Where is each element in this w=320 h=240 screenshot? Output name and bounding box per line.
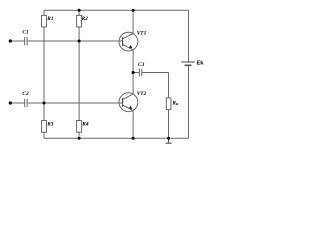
svg-text:R2: R2 [81, 16, 89, 22]
wire input 2 (C2 to base V72) [10, 102, 122, 104]
resistor R2 [77, 15, 82, 27]
node top rail / collector VT1 [132, 9, 135, 12]
wire top rail [44, 9, 189, 11]
wire mid column R2-R4 [78, 10, 80, 138]
transistor VT2 [119, 93, 138, 112]
node input terminal 1 [9, 39, 12, 42]
resistor R1 [42, 15, 47, 27]
node base wire 2 / R1 column [43, 102, 46, 105]
svg-text:C2: C2 [22, 91, 29, 97]
capacitor C2 [25, 99, 27, 107]
ground [166, 138, 172, 143]
svg-text:R3: R3 [46, 121, 54, 127]
wire emitter V72 to bottom rail [132, 111, 134, 139]
battery Ek [181, 62, 195, 65]
wire collector V71 to top rail [132, 10, 134, 33]
wire Rn column [168, 73, 170, 139]
arrow emitter VT2 [129, 106, 132, 109]
svg-text:C3: C3 [138, 62, 145, 68]
node top rail / R2 [78, 9, 81, 12]
svg-text:C1: C1 [22, 29, 29, 35]
node bottom rail / emitter VT2 [132, 137, 135, 140]
node bottom rail / R4 [78, 137, 81, 140]
wire right rail upper [188, 10, 190, 62]
wire input 1 (C1 to base V71) [10, 40, 122, 42]
wire bottom rail [44, 137, 189, 139]
node bottom rail / Rn ground [167, 137, 170, 140]
wire C3 branch [133, 72, 168, 74]
svg-text:VT1: VT1 [137, 31, 147, 37]
wire emitter V71 to collector V72 [132, 50, 134, 94]
svg-text:Ek: Ek [197, 61, 205, 67]
capacitor C1 [25, 37, 27, 45]
resistor Rn [166, 98, 171, 110]
node base wire 1 / R2 column [78, 40, 81, 43]
svg-text:R1: R1 [46, 16, 54, 22]
transistor VT1 [119, 32, 138, 51]
svg-text:Rн: Rн [171, 101, 179, 107]
svg-text:VT2: VT2 [137, 91, 147, 97]
wire right rail lower [188, 65, 190, 138]
capacitor C3 [139, 69, 141, 76]
resistor R4 [77, 121, 82, 133]
svg-text:R4: R4 [81, 121, 89, 127]
node input terminal 2 [9, 101, 12, 104]
node emitter VT1 / C3 [132, 71, 135, 74]
wire left column R1-R3 [43, 10, 45, 138]
arrow emitter VT1 [129, 45, 132, 48]
resistor R3 [42, 121, 47, 133]
